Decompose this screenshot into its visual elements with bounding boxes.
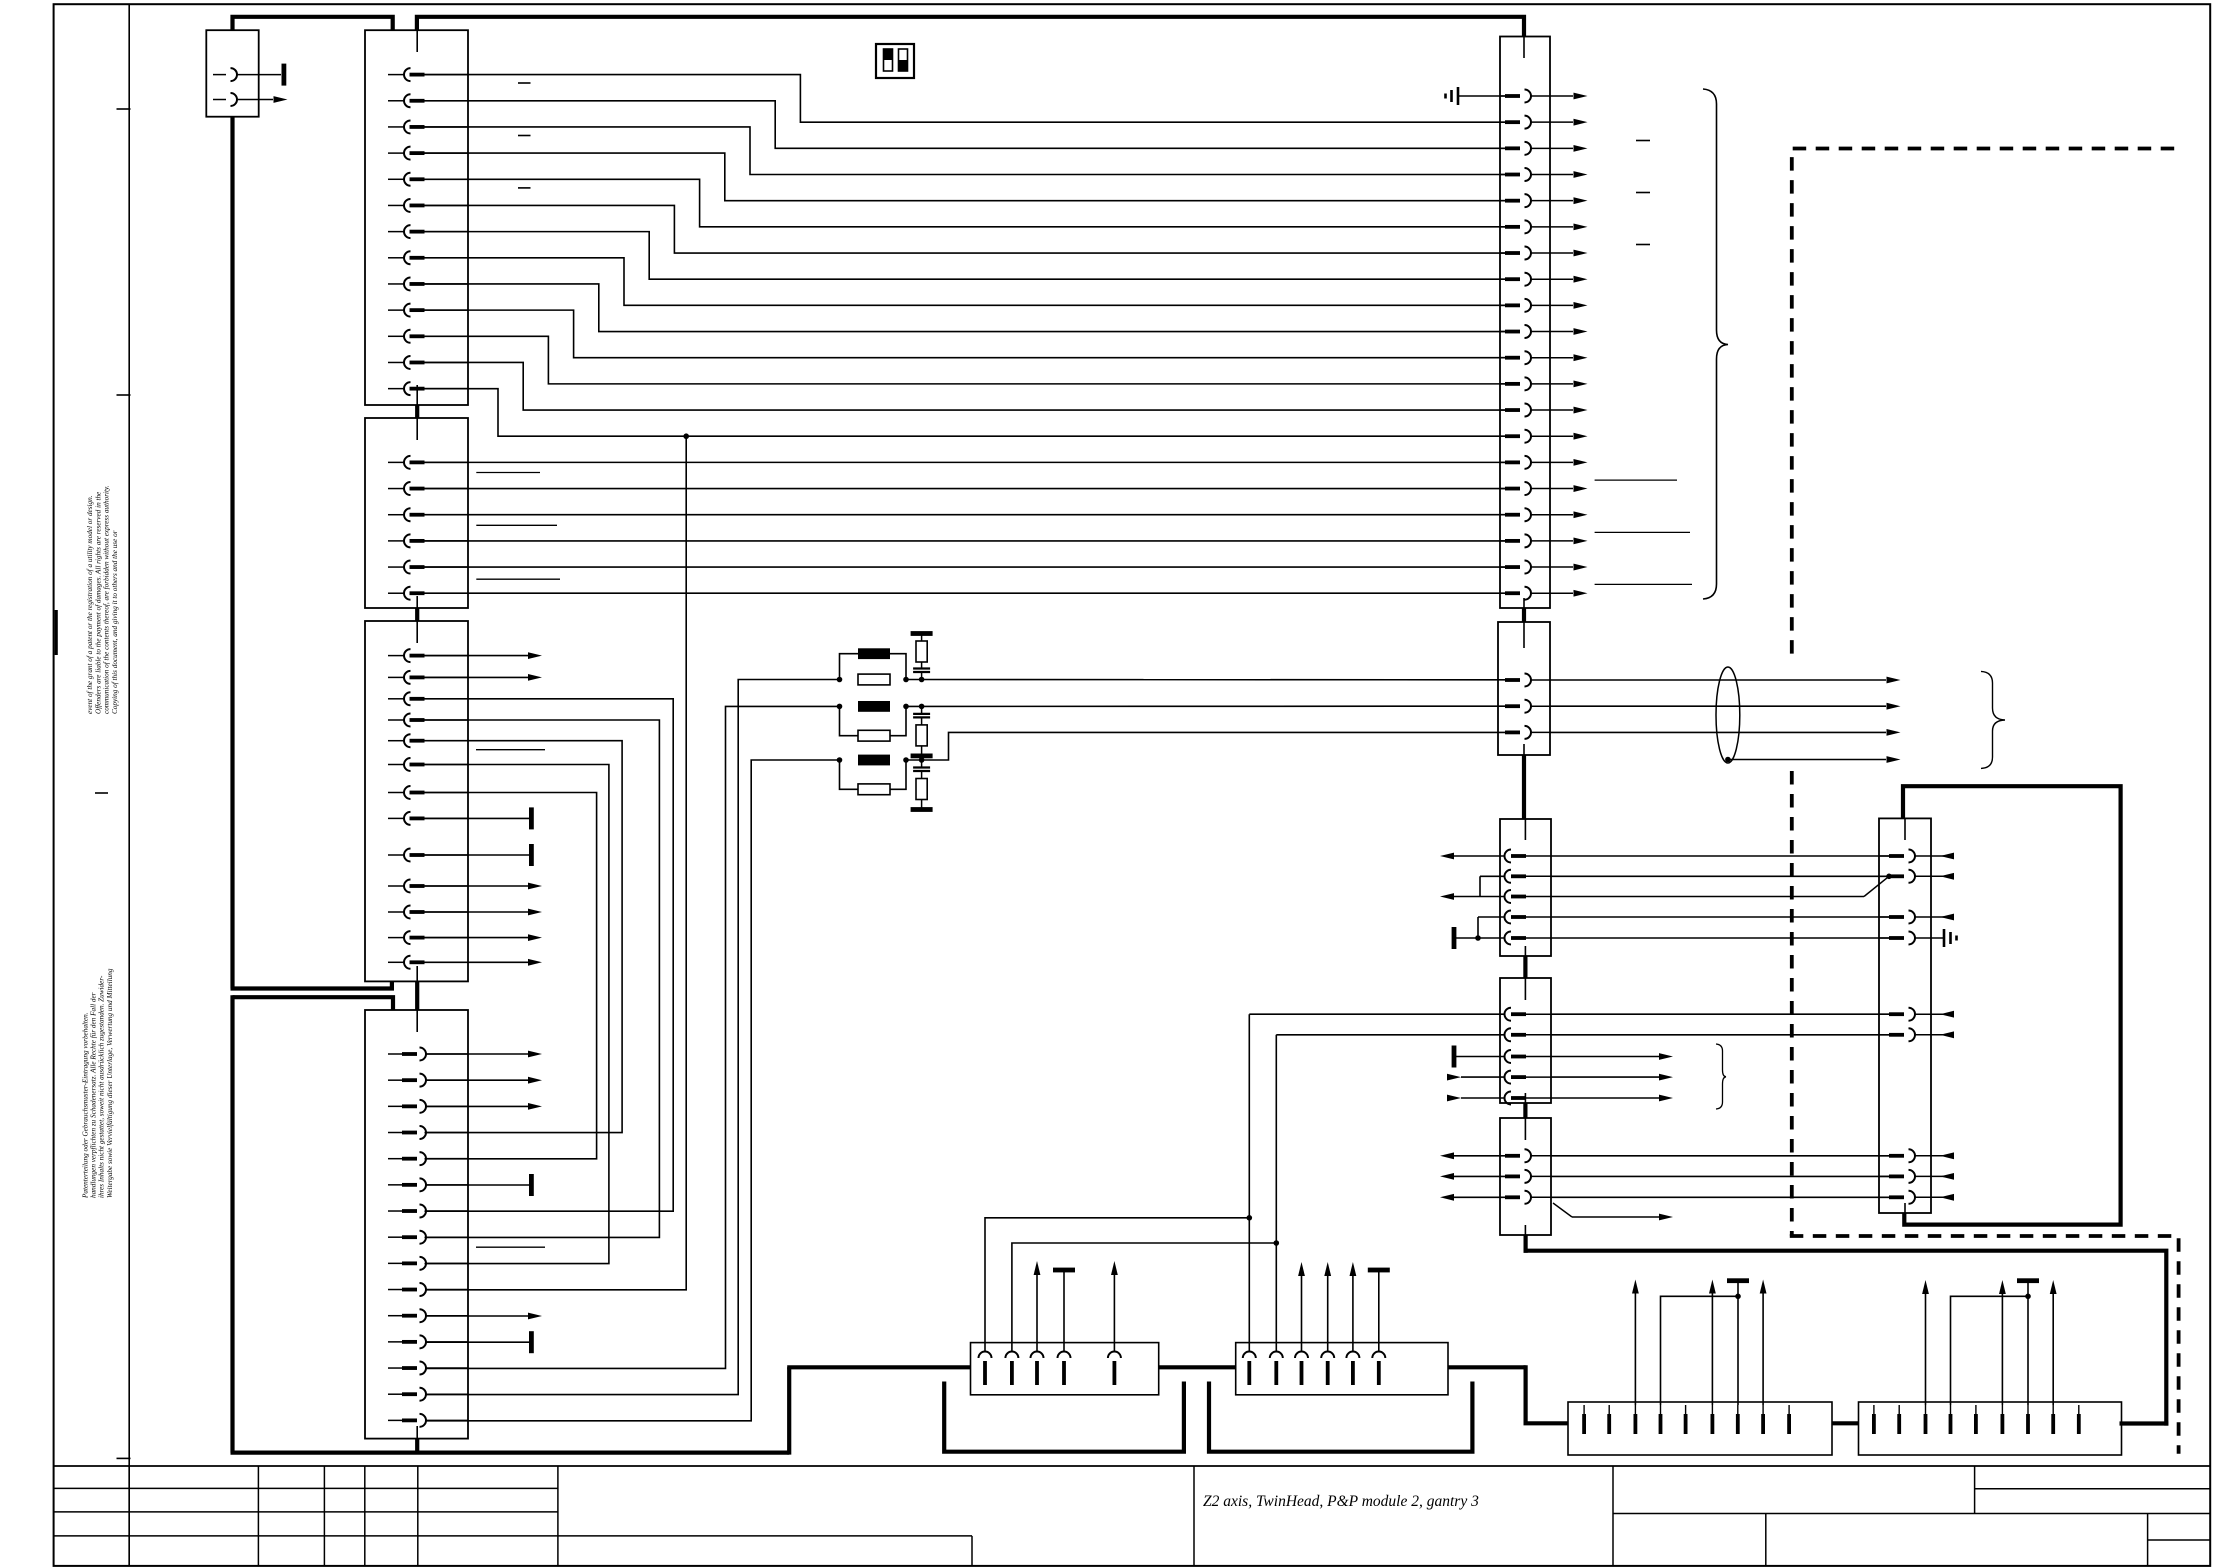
connector X33 pin 5	[1974, 1405, 1978, 1434]
wire label tick 4	[1636, 140, 1650, 142]
arrow X10 pin 5	[1574, 197, 1588, 204]
connector X3 pin 3	[388, 508, 468, 521]
connector X31 pin 1	[1243, 1352, 1256, 1386]
connector X3 pin 1	[388, 456, 468, 469]
arrow X32 pin 3	[1632, 1280, 1639, 1406]
bus wire riser down to X32	[1526, 1365, 1568, 1423]
connector X31 pin 2	[1270, 1352, 1283, 1386]
connector X10 pin 10	[1500, 325, 1573, 338]
arrow X4 pin 12	[425, 934, 543, 941]
fold mark lower middle	[95, 792, 108, 794]
wire label tick 5	[1636, 192, 1650, 194]
bus wire stub X4 gap	[415, 608, 419, 621]
connector X13 pin 5	[1505, 1092, 1552, 1105]
bus wire to X30	[787, 1365, 970, 1369]
connector X11 pin 3	[1505, 726, 1550, 739]
terminator X5 pin 6	[425, 1174, 534, 1196]
connector X5 pin 7	[388, 1205, 468, 1218]
connector X2 pin 1	[388, 68, 468, 81]
bus wire stub X3 gap	[415, 405, 419, 418]
resistor R1b on wire	[858, 674, 890, 685]
arrow into X20 pin 3	[1931, 914, 1954, 921]
bus wire X11 to X12	[1522, 755, 1526, 819]
connector X5 body	[365, 1010, 468, 1439]
svg-text:handlungen verpflichten zu Sch: handlungen verpflichten zu Schadenersatz…	[90, 992, 98, 1198]
connector X31 pin 5	[1346, 1352, 1359, 1386]
bus wire X12 to X13	[1523, 956, 1527, 978]
border frame inner column line	[128, 4, 130, 1566]
connector X10 pin 8	[1500, 273, 1573, 286]
connector X32 body	[1568, 1402, 1832, 1455]
connector X4 pin 6	[388, 758, 468, 771]
brace cable group mid	[1981, 671, 2005, 768]
connector X5 pin 1	[388, 1048, 468, 1061]
svg-text:Weitergabe sowie Vervielfältig: Weitergabe sowie Vervielfältigung dieser…	[106, 968, 114, 1198]
connector X13 pin 3	[1505, 1050, 1552, 1063]
connector X14 pin 3	[1505, 1191, 1551, 1204]
connector X30 body	[971, 1343, 1159, 1395]
bus wire X32 to X33	[1832, 1421, 1859, 1425]
connector X5 pin 9	[388, 1257, 468, 1270]
terminator X31 pin 6	[1368, 1268, 1390, 1352]
wire X2 pin 12 to X10 pin 13	[425, 362, 1506, 410]
connector X2 pin 7	[388, 225, 468, 238]
wire X12 pin 2 jog	[1480, 876, 1505, 896]
arrow X11 pin 2	[1887, 703, 1901, 710]
title block table	[54, 1466, 2210, 1566]
connector X10 pin 4	[1500, 168, 1573, 181]
wire X2 pin 8 to X10 pin 9	[425, 258, 1506, 306]
wire X2 pin 11 to X10 pin 12	[425, 336, 1506, 384]
connector X10 pin 18	[1500, 534, 1573, 547]
arrow X13 pin 4 in	[1447, 1074, 1505, 1081]
bus wire X10 to X11	[1522, 608, 1526, 622]
wire X2 pin 5 to X10 pin 6	[425, 179, 1506, 227]
wire X5 pin 14 to network R1	[425, 680, 840, 1395]
connector X5 pin 13	[388, 1362, 468, 1375]
dip switch S1 element 1	[884, 49, 893, 71]
fold mark bottom	[117, 1457, 131, 1459]
bus wire X31 to riser	[1448, 1365, 1526, 1369]
connector X14 pin 1	[1505, 1149, 1551, 1162]
fold mark upper middle	[117, 394, 131, 396]
arrow X10 pin 17	[1574, 511, 1588, 518]
dashed cable boundary bottom	[1790, 1236, 2179, 1454]
connector X30 pin 1	[979, 1352, 992, 1386]
connector X2 pin 12	[388, 356, 468, 369]
wire label line f	[1595, 479, 1677, 481]
bus wire X1 to X2 top	[233, 17, 393, 30]
arrow X13 pin 5 in	[1447, 1095, 1505, 1102]
resistor R3d	[916, 779, 927, 810]
svg-text:Patenterteilung oder Gebrauchs: Patenterteilung oder Gebrauchsmuster-Ein…	[81, 1012, 89, 1199]
connector X5 pin 14	[388, 1388, 468, 1401]
cable shield symbol	[1716, 667, 1740, 763]
connector X11 body	[1498, 622, 1550, 755]
arrow X5 pin 2	[425, 1077, 542, 1084]
wire X5 pin 13 to network R2	[425, 706, 840, 1368]
fold mark centre left border	[55, 610, 58, 655]
connector X32 pin 2	[1607, 1405, 1611, 1434]
node junction staircase wire 13	[683, 433, 689, 439]
connector X11 pin 2	[1505, 700, 1550, 713]
bus wire shield frame top	[1524, 1251, 2167, 1426]
connector X20 pin 7	[1879, 1149, 1931, 1162]
wire label line b	[476, 524, 557, 526]
wire network R3 to X11 pin 3	[906, 732, 1505, 760]
connector X10 pin 2	[1500, 116, 1573, 129]
wire X3 pin 6 to X10 pin 20	[425, 592, 1506, 594]
terminator X4 pin 8	[425, 807, 534, 829]
wire X3 pin 4 to X10 pin 18	[425, 540, 1506, 542]
wire X4 pin 7 to X5 pin 5	[425, 793, 597, 1159]
arrow X10 pin 7	[1574, 250, 1588, 257]
wire X2 pin 1 to X10 pin 2	[425, 75, 1506, 123]
wire X33 pin 4 jog	[1951, 1296, 2029, 1405]
connector X5 pin 8	[388, 1231, 468, 1244]
wire X2 pin 10 to X10 pin 11	[425, 310, 1506, 358]
arrow into X20 pin 7	[1931, 1152, 1954, 1159]
arrow X5 pin 3	[425, 1103, 542, 1110]
wire X11 pin 3 out	[1550, 731, 1886, 733]
arrow shield drain	[1887, 756, 1901, 763]
wire shield drain	[1728, 759, 1886, 761]
connector X33 pin 6	[2001, 1405, 2005, 1434]
connector X10 pin 16	[1500, 482, 1573, 495]
connector X33 pin 2	[1897, 1405, 1901, 1434]
connector X4 pin 4	[388, 714, 468, 727]
arrow X10 pin 15	[1574, 459, 1588, 466]
bus wire X13 to X14	[1523, 1103, 1527, 1118]
arrow X10 pin 13	[1574, 407, 1588, 414]
arrow X4 pin 1	[425, 652, 543, 659]
connector X4 pin 7	[388, 786, 468, 799]
bus wire corner to X5 top	[233, 997, 394, 1010]
wire X3 pin 1 to X10 pin 15	[425, 461, 1506, 463]
ground symbol at X10 pin 1	[1446, 87, 1506, 105]
brace cable group right	[1703, 89, 1728, 599]
wire X31 pin 2 to X13 pin 2	[1275, 1035, 1277, 1352]
connector X3 pin 4	[388, 534, 468, 547]
arrow X32 pin 6	[1709, 1280, 1716, 1406]
wire X12 pin 5 to X20	[1551, 937, 1889, 939]
wire X12 pin 4 to X20	[1551, 916, 1889, 918]
arrow X12 pin 3 left	[1440, 893, 1505, 900]
connector X5 pin 11	[388, 1309, 468, 1322]
arrow into X20 pin 9	[1931, 1194, 1954, 1201]
connector X30 pin 2	[1005, 1352, 1018, 1386]
terminator X4 pin 9	[425, 844, 534, 866]
connector X10 pin 7	[1500, 247, 1573, 260]
resistor R3b parallel	[837, 757, 909, 795]
resistor R2b parallel	[837, 704, 909, 741]
connector X20 pin 6	[1879, 1028, 1931, 1041]
wire label line d	[476, 749, 545, 751]
svg-text:communication of the contents: communication of the contents thereof, a…	[103, 485, 111, 714]
connector X10 pin 12	[1500, 377, 1573, 390]
connector X12 pin 1	[1505, 850, 1552, 863]
wire X2 pin 9 to X10 pin 10	[425, 284, 1506, 332]
shield U X31	[1209, 1382, 1472, 1452]
connector X2 pin 10	[388, 304, 468, 317]
connector X12 pin 3	[1505, 890, 1552, 903]
connector X2 pin 6	[388, 199, 468, 212]
arrow X32 pin 8	[1760, 1280, 1767, 1406]
connector X32 pin 5	[1684, 1405, 1688, 1434]
connector X5 pin 12	[388, 1335, 468, 1348]
connector X5 pin 15	[388, 1414, 468, 1427]
connector X2 pin 5	[388, 173, 468, 186]
connector X11 pin 1	[1505, 674, 1550, 687]
connector X4 pin 13	[388, 956, 468, 969]
connector X10 body	[1500, 37, 1550, 609]
bus wire stub X5 gap	[415, 981, 419, 1010]
connector X10 pin 9	[1500, 299, 1573, 312]
connector X33 pin 8	[2051, 1405, 2055, 1434]
connector X4 pin 9	[388, 849, 468, 862]
inductor R1a (filled) parallel	[837, 648, 909, 682]
connector X14 body	[1500, 1118, 1551, 1235]
wire X14 pin 2 to X20	[1551, 1175, 1889, 1177]
wire X32 pin 4 jog	[1661, 1296, 1739, 1405]
capacitor R3c	[913, 757, 930, 778]
connector X20 pin 5	[1879, 1008, 1931, 1021]
wire X30 pin 2 up	[1012, 1240, 1279, 1351]
connector X12 pin 5	[1505, 932, 1552, 945]
arrow X31 pin 4	[1324, 1262, 1331, 1352]
inductor R3a (filled) on wire	[858, 755, 890, 766]
wire X5 pin 10 to node	[425, 436, 686, 1290]
terminator X33 pin 7	[2017, 1278, 2039, 1405]
wire X13 pin 3 out	[1551, 1053, 1673, 1060]
arrow X31 pin 5	[1350, 1262, 1357, 1352]
wire X13 pin 4 out	[1551, 1074, 1673, 1081]
arrow X10 pin 9	[1574, 302, 1588, 309]
wire X13 pin 2 to X20	[1551, 1034, 1889, 1036]
wire label line a	[476, 472, 540, 474]
bus wire X2 to X10 top	[417, 17, 1524, 37]
wire X14 leader	[1553, 1203, 1673, 1220]
connector X5 pin 2	[388, 1074, 468, 1087]
arrow X33 pin 6	[1999, 1280, 2006, 1405]
wire X11 pin 1 out	[1550, 679, 1886, 681]
node shield tap	[1725, 757, 1731, 763]
wire X4 pin 4 to X5 pin 8	[425, 720, 660, 1237]
connector X10 pin 11	[1500, 351, 1573, 364]
wire X2 pin 13 to X10 pin 14	[425, 389, 1506, 437]
bus wire X30 to X31	[1159, 1365, 1236, 1369]
connector X1 pin 1	[213, 68, 281, 81]
connector X3 body	[365, 418, 468, 608]
connector X32 pin 9	[1787, 1405, 1791, 1434]
capacitor R2c	[913, 704, 930, 725]
wire X11 pin 2 out	[1550, 705, 1886, 707]
arrow X14 pin 1 left	[1440, 1152, 1505, 1159]
connector X2 pin 3	[388, 120, 468, 133]
connector X12 pin 4	[1505, 911, 1552, 924]
connector X31 pin 6	[1372, 1352, 1385, 1386]
bus wire X14 down	[1523, 1235, 1527, 1253]
arrow into X20 pin 6	[1931, 1031, 1954, 1038]
connector X2 pin 2	[388, 94, 468, 107]
connector X20 pin 2	[1879, 870, 1931, 883]
arrow X10 pin 2	[1574, 119, 1588, 126]
arrow X11 pin 3	[1887, 729, 1901, 736]
connector X33 pin 7	[2026, 1405, 2030, 1434]
arrow X31 pin 3	[1298, 1262, 1305, 1352]
connector X32 pin 1	[1582, 1405, 1586, 1434]
connector X13 pin 2	[1505, 1028, 1552, 1041]
connector X10 pin 1	[1500, 90, 1573, 103]
connector X2 body	[365, 30, 468, 405]
connector X4 pin 3	[388, 692, 468, 705]
connector X32 pin 3	[1634, 1405, 1638, 1434]
connector X10 pin 20	[1500, 587, 1573, 600]
wire X14 pin 1 to X20	[1551, 1155, 1889, 1157]
dip switch S1 element 2	[899, 49, 908, 71]
wire network R2 to X11 pin 2	[906, 705, 1505, 707]
resistor R1d	[916, 634, 927, 663]
wire X4 pin 5 to X5 pin 4	[425, 741, 623, 1133]
connector X10 pin 13	[1500, 404, 1573, 417]
wire X12 pin 4 jog	[1478, 917, 1505, 938]
arrow X4 pin 10	[425, 883, 543, 890]
arrow X5 pin 11	[425, 1313, 542, 1320]
wire X2 pin 6 to X10 pin 7	[425, 205, 1506, 253]
arrow X10 pin 3	[1574, 145, 1588, 152]
connector X5 pin 5	[388, 1152, 468, 1165]
wire diagonal X20 pin 2 tap	[1864, 874, 1892, 897]
arrow X10 pin 19	[1574, 564, 1588, 571]
shield U X30	[944, 1382, 1184, 1452]
wire X13 pin 1 to X20	[1551, 1013, 1889, 1015]
connector X32 pin 4	[1659, 1405, 1663, 1434]
svg-text:Z2 axis, TwinHead, P&P module: Z2 axis, TwinHead, P&P module 2, gantry …	[1203, 1493, 1479, 1510]
bus wire X20 hat	[1903, 786, 2121, 1224]
terminator R3 branch	[911, 807, 933, 812]
connector X32 pin 8	[1761, 1405, 1765, 1434]
capacitor R1c	[913, 662, 930, 682]
wire X12 pin 1 to X20	[1551, 855, 1889, 857]
connector X5 pin 3	[388, 1100, 468, 1113]
connector X33 body	[1859, 1402, 2122, 1455]
connector X10 pin 6	[1500, 220, 1573, 233]
wire label line g	[1595, 531, 1690, 533]
connector X20 pin 9	[1879, 1191, 1931, 1204]
connector X3 pin 2	[388, 482, 468, 495]
wire X13 pin 2 left	[1276, 1034, 1505, 1036]
arrow X10 pin 16	[1574, 485, 1588, 492]
bus wire to X4 bottom	[231, 981, 392, 988]
connector X10 pin 14	[1500, 430, 1573, 443]
svg-text:Offenders are liable to the pa: Offenders are liable to the payment of d…	[94, 491, 102, 714]
connector X20 body	[1879, 818, 1931, 1213]
bus wire left lower vertical	[230, 995, 234, 1452]
copyright notice german (rotated)	[81, 968, 114, 1199]
bus wire X1 down left side	[230, 117, 234, 989]
terminator on X1 pin 1	[282, 64, 287, 86]
connector X32 pin 7	[1736, 1405, 1740, 1434]
connector X5 pin 10	[388, 1283, 468, 1296]
copyright notice english (rotated)	[86, 485, 119, 714]
arrow X10 pin 10	[1574, 328, 1588, 335]
connector X12 body	[1500, 819, 1551, 956]
arrow into X20 pin 2	[1931, 873, 1954, 880]
arrow X4 pin 13	[425, 959, 543, 966]
connector X2 pin 4	[388, 147, 468, 160]
wire X4 pin 3 to X5 pin 7	[425, 699, 674, 1211]
wire X2 pin 2 to X10 pin 3	[425, 101, 1506, 149]
connector X31 pin 4	[1321, 1352, 1334, 1386]
arrow X33 pin 3	[1922, 1280, 1929, 1405]
connector X5 pin 6	[388, 1178, 468, 1191]
title text	[1203, 1493, 1479, 1510]
connector X10 pin 5	[1500, 194, 1573, 207]
wire label line c	[476, 578, 560, 580]
arrow X10 pin 12	[1574, 380, 1588, 387]
connector X2 pin 9	[388, 277, 468, 290]
connector X31 pin 3	[1295, 1352, 1308, 1386]
connector X30 pin 3	[1031, 1352, 1044, 1386]
wire network R1 to X11 pin 1	[906, 679, 1505, 681]
connector X30 pin 5	[1108, 1352, 1121, 1386]
connector X3 pin 6	[388, 587, 468, 600]
terminator R2 branch	[911, 754, 933, 759]
inductor R2a (filled) on wire	[858, 701, 890, 712]
wire label tick 1	[518, 82, 531, 84]
terminator X12 pin 5	[1452, 927, 1505, 949]
connector X33 pin 3	[1924, 1405, 1928, 1434]
arrow X10 pin 1	[1574, 93, 1588, 100]
connector X4 pin 5	[388, 734, 468, 747]
arrow X10 pin 20	[1574, 590, 1588, 597]
connector X10 pin 19	[1500, 561, 1573, 574]
connector X20 pin 1	[1879, 850, 1931, 863]
connector X20 pin 3	[1879, 911, 1931, 924]
arrow X10 pin 14	[1574, 433, 1588, 440]
fold mark top	[117, 108, 131, 110]
terminator X30 pin 4	[1053, 1268, 1075, 1352]
connector X10 pin 15	[1500, 456, 1573, 469]
wire X4 pin 6 to X5 pin 9	[425, 765, 609, 1264]
connector X1 body	[206, 30, 258, 117]
wire label tick 2	[518, 135, 531, 137]
connector X2 pin 8	[388, 251, 468, 264]
svg-text:event of the grant of a patent: event of the grant of a patent or the re…	[86, 495, 94, 714]
arrow X30 pin 5	[1111, 1261, 1118, 1352]
wire X13 pin 5 out	[1551, 1095, 1673, 1102]
arrow X30 pin 3	[1034, 1261, 1041, 1352]
resistor R2d	[916, 725, 927, 756]
arrow into X20 pin 5	[1931, 1011, 1954, 1018]
dip switch S1 body	[876, 44, 914, 78]
connector X12 pin 2	[1505, 870, 1552, 883]
wire X3 pin 2 to X10 pin 16	[425, 488, 1506, 490]
connector X5 pin 4	[388, 1126, 468, 1139]
connector X4 pin 2	[388, 671, 468, 684]
arrow into X20 pin 8	[1931, 1173, 1954, 1180]
arrow X10 pin 11	[1574, 354, 1588, 361]
connector X31 body	[1236, 1343, 1448, 1395]
wire label line h	[1595, 583, 1692, 585]
connector X2 pin 11	[388, 330, 468, 343]
wire X31 pin 1 to X13 pin 1	[1248, 1014, 1250, 1351]
arrow X33 pin 8	[2050, 1280, 2057, 1405]
connector X4 pin 1	[388, 649, 468, 662]
arrow X10 pin 4	[1574, 171, 1588, 178]
connector X32 pin 6	[1711, 1405, 1715, 1434]
wire X30 pin 1 up	[985, 1215, 1252, 1352]
